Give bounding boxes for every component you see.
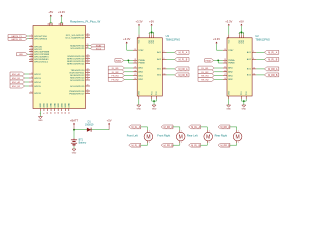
U3 pin BO2: [157, 74, 166, 77]
svg-text:40: 40: [51, 23, 53, 25]
net label PWM U2: [205, 59, 214, 63]
net label M_RL_A: [189, 125, 201, 129]
svg-text:PWMB: PWMB: [138, 63, 145, 65]
wire M_FR_A: [173, 127, 180, 130]
wire U2 pwm: [214, 59, 223, 61]
svg-text:20: 20: [87, 85, 89, 87]
wire U3 vm tie: [150, 32, 154, 34]
svg-text:Raspberry_Pi_Pico_W: Raspberry_Pi_Pico_W: [70, 20, 100, 24]
wire LED: [28, 53, 30, 55]
wire U2 vcc: [228, 26, 230, 35]
net label PWM U3: [115, 59, 124, 63]
power +5V: [107, 118, 112, 129]
net label FL_IN1: [108, 66, 124, 70]
net label M_FR_B: [175, 73, 189, 77]
wire battery rail: [74, 129, 109, 131]
wire M_FL_B: [167, 58, 175, 60]
wire M_FL_A: [141, 127, 148, 130]
U3 pin AO1: [157, 51, 166, 54]
U1 pin 19 SCLK/GPIO14: [70, 79, 90, 82]
U1 pin 21 GPIO16/PWM8: [29, 50, 50, 53]
svg-text:23: 23: [134, 59, 136, 61]
U2 pin AO1: [247, 51, 256, 54]
svg-text:M_RL_A: M_RL_A: [268, 51, 277, 54]
U2 VM2 pin: [240, 35, 242, 38]
svg-text:2: 2: [253, 51, 254, 53]
U2 PGND pins: [241, 96, 243, 99]
svg-text:GPIO9: GPIO9: [34, 93, 41, 95]
U1 pin 25 SDA0/GPIO24: [70, 44, 88, 47]
U1 GND pin bottom 3: [47, 103, 49, 114]
wire ENC_A2: [25, 81, 30, 83]
svg-text:15: 15: [224, 62, 226, 64]
svg-text:M_RL_B: M_RL_B: [268, 60, 277, 62]
svg-text:SCLK/GPIO15: SCLK/GPIO15: [70, 86, 85, 88]
wire U1 gnd: [39, 111, 41, 117]
svg-text:M_FL_A: M_FL_A: [132, 126, 141, 129]
svg-text:ENC_A2: ENC_A2: [12, 81, 21, 84]
net label M_FL_B: [129, 143, 141, 147]
U1 pin 14 TRIG/GPIO10: [71, 69, 90, 72]
U1 pin 27 SERVO3/GPIO21: [67, 62, 90, 65]
net label M_RL_B: [189, 143, 201, 147]
wire RL_IN1: [214, 67, 223, 69]
pin stub U1 top 36: [59, 23, 61, 26]
svg-text:PWM: PWM: [206, 60, 211, 62]
motor M2 Front Right: [176, 130, 185, 144]
svg-text:ENC_A1: ENC_A1: [12, 73, 21, 76]
power +5V: [149, 19, 154, 26]
svg-text:PWMA: PWMA: [228, 59, 235, 62]
svg-text:+3.3V: +3.3V: [123, 37, 130, 41]
U2 pin AIN2: [223, 70, 234, 73]
U1 pin 32 I2C1_SCL/GPIO27: [66, 34, 90, 37]
svg-text:STBY: STBY: [228, 50, 234, 52]
power +5V: [239, 19, 244, 26]
net label RL_IN2: [198, 70, 214, 74]
motor M1 Front Left: [144, 130, 153, 144]
diode D1 1N5819: [85, 120, 94, 132]
U2 GND pin: [228, 96, 230, 99]
net label M_FR_B: [161, 143, 173, 147]
U3 PGND pins: [151, 96, 153, 99]
svg-text:5: 5: [31, 77, 32, 79]
svg-text:M_FR_A: M_FR_A: [178, 68, 188, 71]
svg-text:16: 16: [134, 78, 136, 80]
U2 pin STBY: [223, 49, 234, 52]
wire M_RR_B: [230, 143, 237, 145]
wire 3V3 to +3.3V: [60, 22, 63, 24]
U1 pin 27 GPIO21/SCL0: [29, 60, 49, 63]
svg-text:43: 43: [69, 112, 71, 114]
svg-text:6: 6: [164, 58, 165, 60]
U3 pin PWMB: [133, 62, 145, 65]
net label UART0_TX: [8, 35, 27, 38]
svg-text:+3.3V: +3.3V: [58, 10, 65, 14]
wire FL_IN1: [124, 67, 133, 69]
wire RR_IN2: [214, 78, 223, 80]
net label RL_IN1: [198, 66, 214, 70]
U1 GND pin bottom 2: [44, 103, 46, 114]
U3 pin AO2: [157, 58, 166, 61]
U2 pin PWMB: [223, 62, 235, 65]
svg-text:+3.3V: +3.3V: [135, 19, 142, 23]
svg-text:31: 31: [87, 36, 89, 38]
svg-text:GND: GND: [226, 109, 231, 111]
U3 pin BO1: [157, 68, 166, 71]
power +3.3V: [123, 37, 130, 44]
U1 GND pin bottom 8: [65, 103, 67, 114]
U1 pin 31 I2C1_SDA/GPIO26: [65, 36, 90, 39]
wire M_FR_B: [167, 74, 175, 76]
motor M3 Rear Left: [204, 130, 213, 144]
svg-text:Rear Right: Rear Right: [215, 133, 228, 137]
svg-text:21: 21: [224, 67, 226, 69]
svg-text:GND: GND: [40, 103, 42, 108]
svg-text:20: 20: [227, 37, 229, 39]
wire FR_IN2: [124, 78, 133, 80]
svg-text:GND: GND: [152, 109, 157, 111]
U3 pin AIN1: [133, 67, 144, 70]
net label M_FR_A: [175, 67, 189, 71]
net label SCL0: [91, 47, 105, 50]
U3 VM2 pin: [151, 35, 153, 38]
U1 pin 20 GPIO15/WRT0: [29, 55, 49, 58]
svg-text:PG1: PG1: [151, 91, 153, 95]
wire ENC_A1: [25, 73, 30, 75]
svg-text:19: 19: [87, 79, 89, 81]
wire U3 stby: [127, 44, 133, 51]
svg-text:M_RR_B: M_RR_B: [220, 145, 230, 147]
svg-text:+BATT: +BATT: [70, 118, 79, 122]
wire RL_IN2: [214, 71, 223, 73]
power +5V: [48, 10, 53, 16]
net label RR_IN1: [198, 74, 214, 78]
svg-text:PWM2/GPIO17: PWM2/GPIO17: [69, 93, 85, 95]
svg-text:GND: GND: [61, 103, 63, 108]
svg-text:28: 28: [58, 112, 60, 114]
net label M_FL_A: [129, 125, 141, 129]
U1 pin 5 GPIO3: [29, 77, 41, 80]
svg-text:8: 8: [44, 113, 46, 114]
U3 pin PWMA: [133, 59, 145, 62]
wire M_FL_B: [141, 143, 148, 145]
svg-text:GPIO5: GPIO5: [34, 86, 41, 88]
power +BATT: [70, 118, 79, 129]
svg-text:M_RR_A: M_RR_A: [268, 68, 278, 71]
U1 pin 16 MOSI/GPIO12: [70, 74, 90, 77]
pin stub U1 top 39: [49, 23, 51, 26]
U3 VM1 pin: [149, 35, 151, 38]
svg-text:23: 23: [54, 112, 56, 114]
svg-text:GND: GND: [54, 103, 56, 108]
U1 pin 17 MISO/GPIO13: [70, 76, 90, 79]
svg-text:GPIO4: GPIO4: [34, 82, 41, 84]
U2 VM1 pin: [238, 35, 240, 38]
U1 pin 15 ECHO/GPIO11: [70, 71, 90, 74]
svg-text:+5V: +5V: [149, 19, 154, 23]
ground U2 1: [226, 105, 231, 111]
svg-text:SCLK/GPIO14: SCLK/GPIO14: [70, 80, 85, 82]
svg-text:18: 18: [51, 112, 53, 114]
svg-text:U2: U2: [255, 34, 259, 38]
net label FR_IN1: [108, 74, 124, 78]
wire RR_IN1: [214, 75, 223, 77]
power +3.3V: [58, 10, 65, 16]
net label ENC_A1: [10, 72, 25, 76]
svg-text:PWM: PWM: [116, 60, 121, 62]
svg-text:20: 20: [138, 37, 140, 39]
svg-text:+3.3V: +3.3V: [225, 19, 232, 23]
svg-text:SCL0: SCL0: [96, 48, 102, 50]
net label M_RR_B: [264, 73, 278, 77]
ground U3 2: [152, 105, 157, 111]
svg-text:PWMA: PWMA: [138, 59, 145, 62]
power +3.3V: [213, 37, 220, 44]
U1 pin 26 SERVO2/GPIO20: [67, 60, 90, 63]
svg-text:GPIO3: GPIO3: [34, 78, 41, 80]
U2 pin BO1: [247, 68, 256, 71]
wire M_FR_A: [167, 68, 175, 70]
U1 pin 25 SERVO1/GPIO19: [67, 57, 90, 60]
svg-text:27: 27: [87, 62, 89, 64]
svg-text:4: 4: [31, 73, 32, 75]
net label ENC_B1: [10, 76, 25, 80]
transistor-driver U3 TB6612FNG body: [137, 38, 162, 96]
U1 GND pin bottom 9: [69, 103, 71, 114]
svg-text:M_RL_A: M_RL_A: [191, 126, 200, 129]
net label M_RR_B: [218, 143, 230, 147]
svg-text:M_FR_A: M_FR_A: [164, 126, 174, 129]
wire M_RR_A: [230, 127, 237, 130]
svg-text:GND: GND: [65, 103, 67, 108]
svg-text:+5V: +5V: [239, 19, 244, 23]
U1 pin 1 GPIO0/TXD0: [29, 35, 48, 38]
wire FR_IN1: [124, 75, 133, 77]
U1 pin 12 GPIO9: [29, 92, 41, 95]
transistor-driver U2 TB6612FNG body: [227, 38, 252, 96]
wire M_FL_A: [167, 51, 175, 53]
U2 pin BIN2: [223, 78, 234, 81]
wire U2 stby: [217, 44, 223, 51]
U1 pin 29 GPIO22: [29, 48, 43, 51]
battery BT1: [71, 138, 87, 146]
svg-text:M: M: [179, 134, 183, 140]
U3 GND pin: [138, 96, 140, 99]
svg-text:GND: GND: [58, 103, 60, 108]
svg-text:VM3: VM3: [243, 40, 245, 44]
ground U2 2: [242, 105, 247, 111]
svg-text:21: 21: [134, 67, 136, 69]
wire U2 gnd2: [242, 99, 247, 101]
svg-text:22: 22: [224, 70, 226, 72]
svg-text:7: 7: [31, 85, 32, 87]
net label M_RL_A: [264, 50, 278, 54]
svg-text:PWMB: PWMB: [228, 63, 235, 65]
svg-text:FR_IN2: FR_IN2: [112, 80, 120, 82]
svg-text:M_FL_A: M_FL_A: [179, 51, 188, 54]
wire ENC_B2: [25, 85, 30, 87]
svg-text:10: 10: [253, 68, 255, 70]
svg-text:M_FR_B: M_FR_B: [164, 145, 174, 147]
svg-text:10: 10: [164, 68, 166, 70]
net label UART0_RX: [8, 37, 27, 40]
net label M_RR_A: [218, 125, 230, 129]
svg-text:1: 1: [238, 130, 239, 132]
svg-text:ENC_B2: ENC_B2: [12, 86, 21, 88]
wire U3 vcc: [138, 26, 140, 35]
U1 pin 2 GPIO1/RXD0: [29, 37, 48, 40]
svg-text:GPIO2: GPIO2: [34, 74, 41, 76]
svg-text:17: 17: [134, 74, 136, 76]
svg-text:+3.3V: +3.3V: [213, 37, 220, 41]
svg-text:UART0_RX: UART0_RX: [11, 38, 22, 41]
wire ENC_B1: [25, 77, 30, 79]
svg-text:19: 19: [134, 49, 136, 51]
ground U3 1: [137, 105, 142, 111]
wire M_FR_B: [173, 143, 180, 145]
svg-text:2: 2: [31, 37, 32, 39]
U2 pin AO2: [247, 58, 256, 61]
svg-text:23: 23: [224, 59, 226, 61]
svg-text:Battery: Battery: [79, 141, 87, 144]
U3 pin STBY: [133, 49, 144, 52]
wire U3 gnd1: [138, 99, 140, 105]
svg-text:M_RR_A: M_RR_A: [220, 126, 230, 129]
svg-text:14: 14: [253, 74, 255, 76]
wire M_RL_A: [256, 51, 264, 53]
wire M_RL_B: [256, 58, 264, 60]
svg-text:GND: GND: [137, 109, 142, 111]
U1 pin 26 SCL0/GPIO25: [70, 47, 88, 50]
svg-text:PG2: PG2: [156, 91, 158, 95]
U2 pin AIN1: [223, 67, 234, 70]
U2 VM3 pin: [242, 35, 244, 38]
svg-text:GND: GND: [47, 103, 49, 108]
net label M_FL_A: [175, 50, 189, 54]
U1 GND pin bottom 4: [51, 103, 53, 114]
svg-text:M: M: [206, 134, 210, 140]
svg-text:22: 22: [87, 92, 89, 94]
wire FL_IN2: [124, 71, 133, 73]
U1 GND pin bottom 1: [40, 103, 42, 114]
wire U3 pwm: [124, 59, 133, 61]
U3 VCC pin: [138, 35, 140, 38]
svg-text:PG1: PG1: [241, 91, 243, 95]
svg-text:Rear Left: Rear Left: [187, 133, 198, 137]
svg-text:M_RL_B: M_RL_B: [191, 145, 200, 147]
wire UART0_TX: [27, 35, 29, 37]
svg-text:TB6612FNG: TB6612FNG: [255, 38, 270, 42]
svg-text:6: 6: [253, 58, 254, 60]
U1 GND pin bottom 6: [58, 103, 60, 114]
U1 GND pin bottom 7: [61, 103, 63, 114]
svg-text:M_FL_B: M_FL_B: [179, 60, 188, 62]
power +3.3V: [135, 19, 142, 26]
net label M_FL_B: [175, 57, 189, 61]
net label M_RL_B: [264, 57, 278, 61]
svg-text:GND: GND: [69, 103, 71, 108]
wire M_RR_A: [256, 68, 264, 70]
U2 pin PWMA: [223, 59, 235, 62]
svg-text:GND: GND: [242, 109, 247, 111]
net label FR_IN2: [108, 78, 124, 82]
net label ENC_B2: [10, 84, 25, 88]
U1 pin 22 PWM2/GPIO17: [69, 92, 90, 95]
ground U1: [38, 117, 43, 123]
net label LED: [17, 53, 28, 57]
wire U2 vm tie: [239, 32, 243, 34]
pin stub U1 top 37: [62, 23, 64, 26]
U1 pin 7 GPIO5: [29, 85, 41, 88]
svg-text:U3: U3: [166, 34, 170, 38]
svg-text:17: 17: [224, 74, 226, 76]
svg-text:GND: GND: [51, 103, 53, 108]
op-amp U1 Raspberry Pi Pico W body: [33, 26, 86, 109]
svg-text:LED: LED: [19, 54, 24, 56]
svg-text:14: 14: [164, 74, 166, 76]
net label SDA0: [91, 44, 105, 47]
svg-text:22: 22: [134, 70, 136, 72]
svg-text:15: 15: [134, 62, 136, 64]
svg-text:M: M: [236, 134, 240, 140]
U3 VM3 pin: [153, 35, 155, 38]
svg-text:GND: GND: [72, 153, 77, 155]
svg-text:GND: GND: [38, 120, 43, 122]
svg-text:33: 33: [61, 112, 63, 114]
svg-text:I2C1_SDA/GPIO26: I2C1_SDA/GPIO26: [65, 36, 85, 39]
svg-text:1N5819: 1N5819: [85, 123, 94, 126]
svg-text:SCL0/GPIO25: SCL0/GPIO25: [70, 48, 85, 50]
net label FL_IN2: [108, 70, 124, 74]
wire UART0_RX: [27, 38, 29, 40]
svg-text:VM3: VM3: [153, 40, 155, 44]
power +3.3V: [225, 19, 232, 26]
U1 pin 6 GPIO4: [29, 81, 41, 84]
svg-text:6: 6: [31, 81, 32, 83]
U1 pin 21 PWM1/GPIO16: [69, 90, 90, 93]
U1 pin 20 SCLK/GPIO15: [70, 85, 90, 88]
net label RR_IN2: [198, 78, 214, 82]
U1 GND pin bottom 5: [54, 103, 56, 114]
U1 pin 24 WS2812/GPIO18: [67, 55, 90, 58]
net label M_RR_A: [264, 67, 278, 71]
U2 VCC pin: [228, 35, 230, 38]
svg-text:19: 19: [224, 49, 226, 51]
motor M4 Rear Right: [233, 130, 242, 144]
svg-text:M_FR_B: M_FR_B: [178, 75, 188, 77]
U1 pin 22 GPIO17/PWM9: [29, 53, 50, 56]
wire U2 gnd1: [228, 99, 230, 105]
svg-text:2: 2: [238, 142, 239, 144]
svg-text:13: 13: [47, 112, 49, 114]
svg-text:M_FL_B: M_FL_B: [132, 145, 141, 147]
svg-text:38: 38: [65, 112, 67, 114]
U3 pin BIN2: [133, 78, 144, 81]
net label ENC_A2: [10, 80, 25, 84]
svg-text:GND: GND: [139, 90, 141, 95]
svg-text:M: M: [146, 134, 150, 140]
svg-text:GND: GND: [44, 103, 46, 108]
svg-text:PG2: PG2: [246, 91, 248, 95]
svg-text:RR_IN2: RR_IN2: [201, 80, 209, 82]
svg-text:SERVO3/GPIO21: SERVO3/GPIO21: [67, 63, 85, 65]
U2 pin BIN1: [223, 74, 234, 77]
svg-text:TB6612FNG: TB6612FNG: [166, 38, 181, 42]
svg-text:26: 26: [87, 47, 89, 49]
svg-text:37: 37: [61, 23, 63, 25]
U3 pin AIN2: [133, 70, 144, 73]
